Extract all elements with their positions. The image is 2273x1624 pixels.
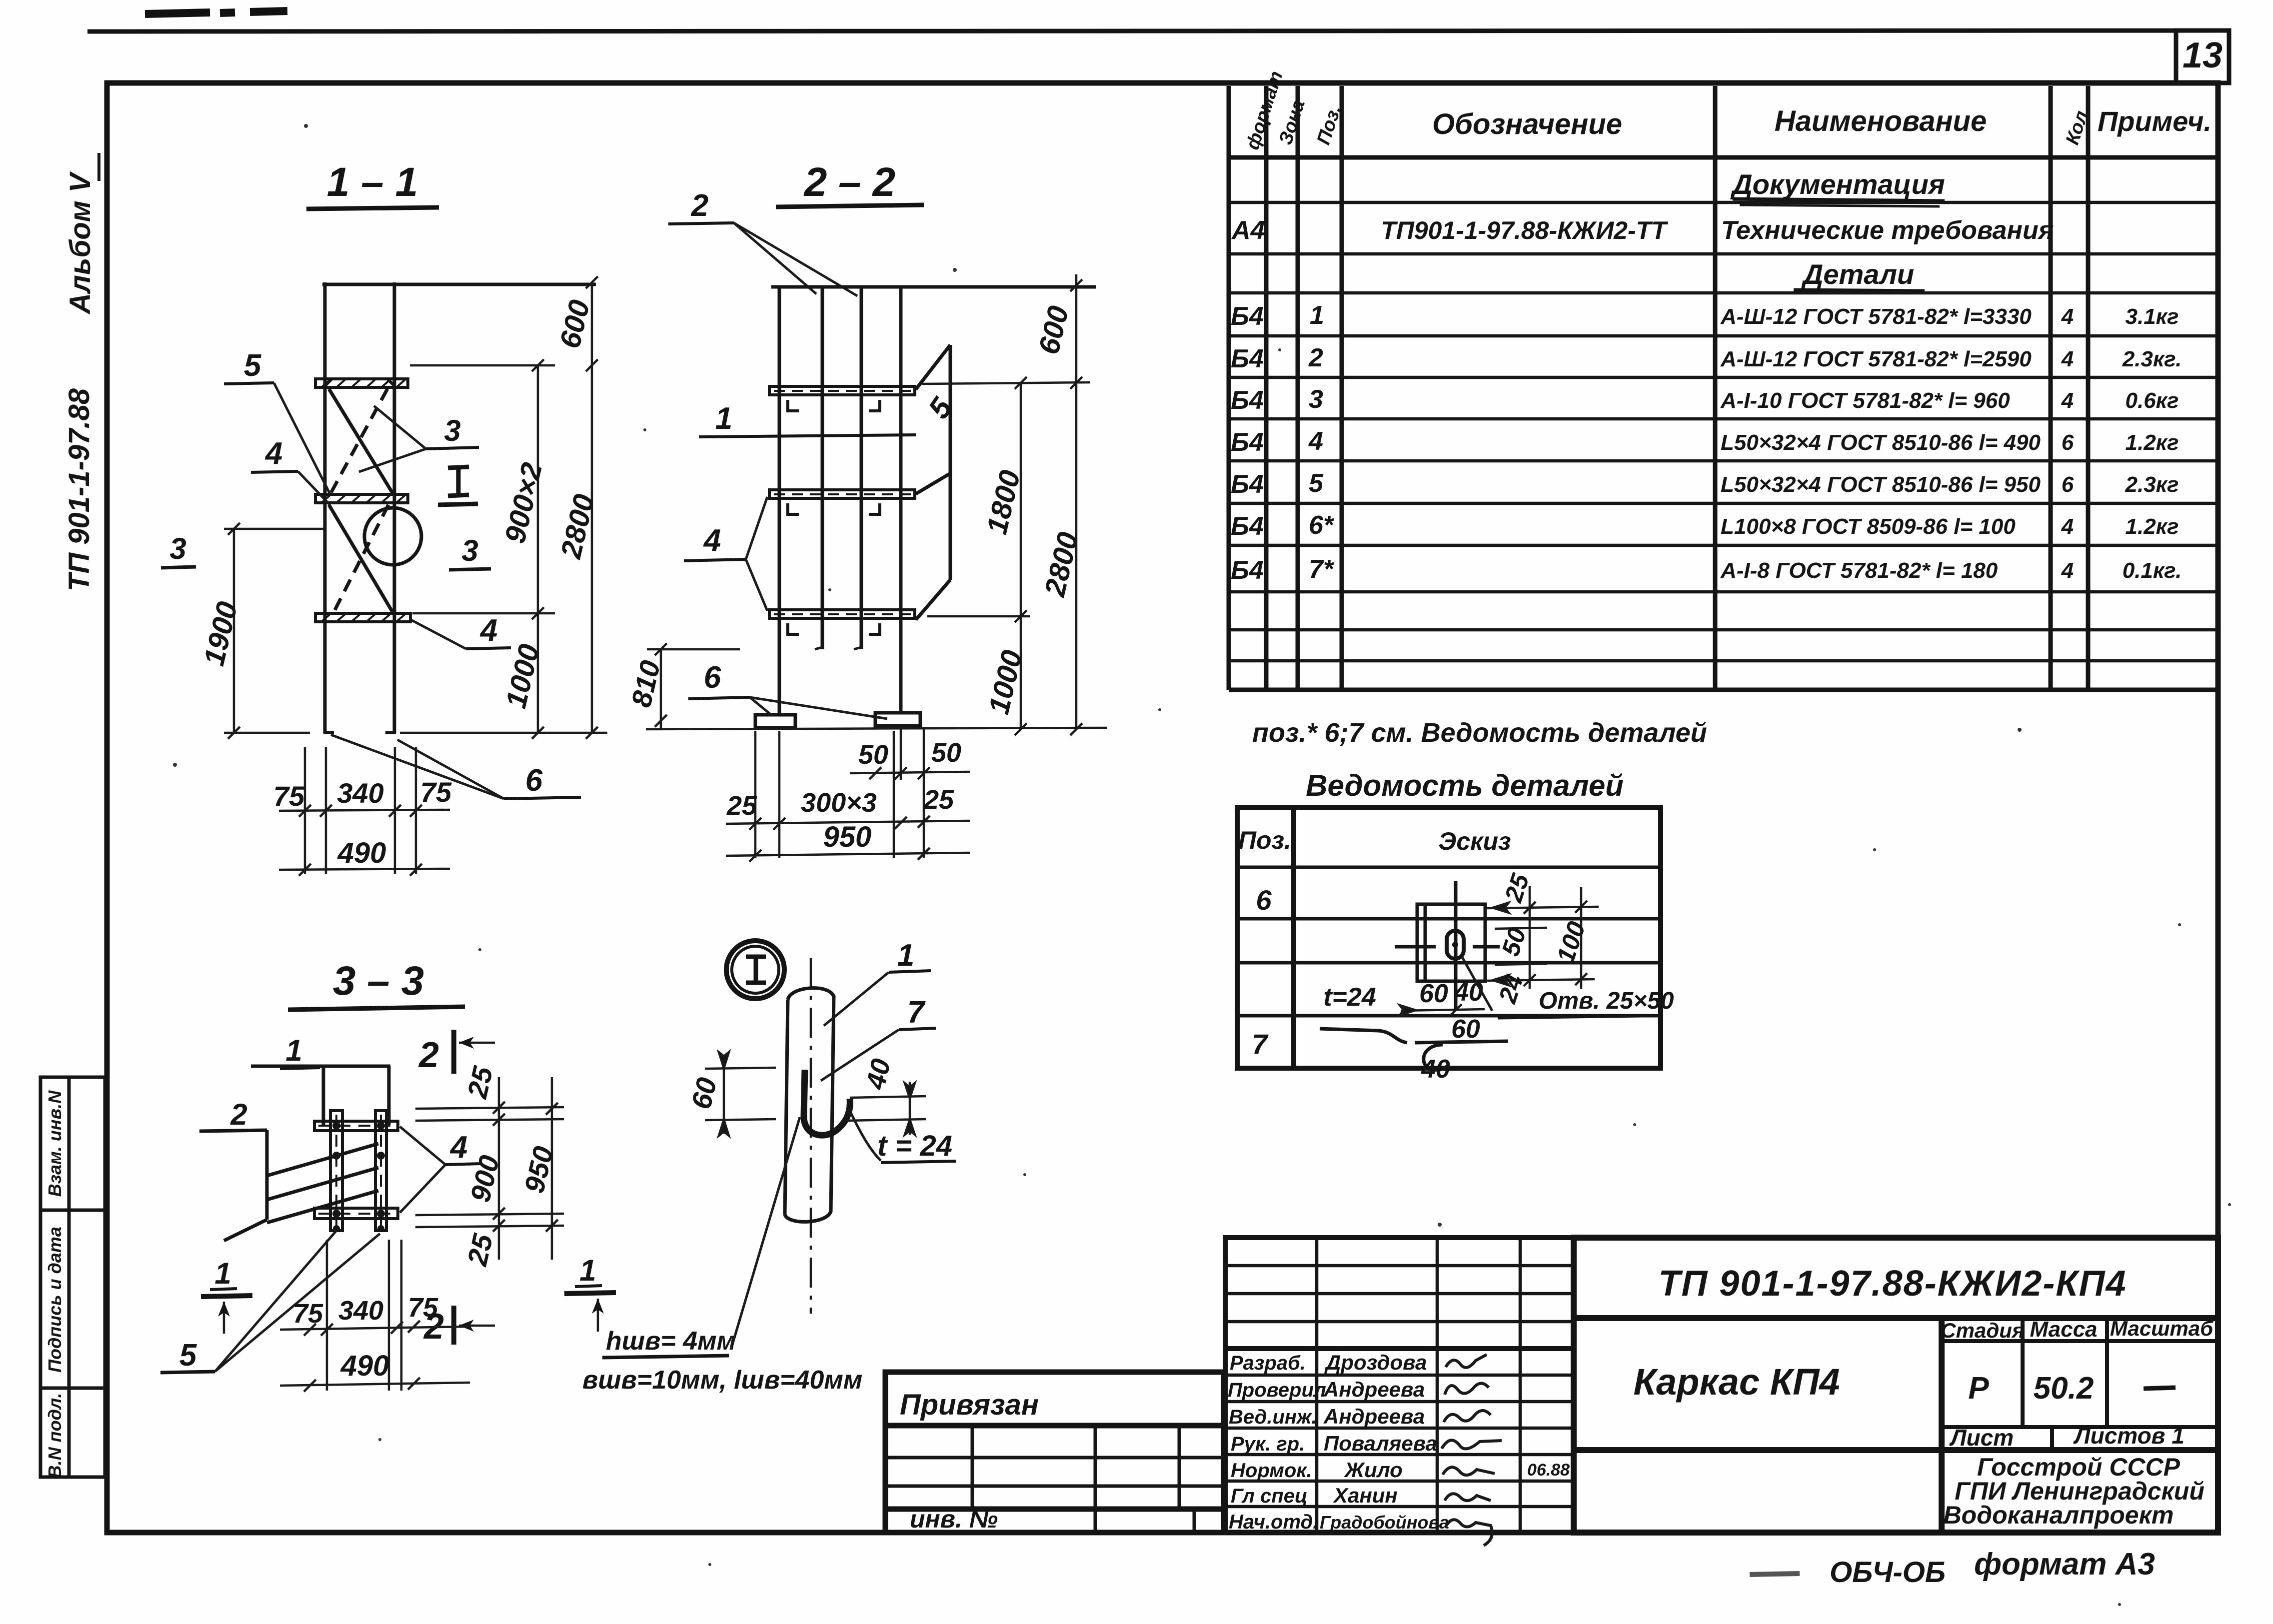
gusset flags right — [916, 345, 950, 620]
svg-text:75: 75 — [408, 1293, 438, 1323]
svg-text:4: 4 — [2061, 514, 2074, 539]
bottom extension lines — [327, 1240, 401, 1391]
shelf bar 1 — [769, 386, 915, 395]
svg-text:1: 1 — [715, 401, 732, 436]
svg-text:5: 5 — [244, 348, 262, 383]
svg-text:4: 4 — [449, 1130, 467, 1165]
dim 490 — [279, 864, 450, 876]
svg-text:2: 2 — [230, 1098, 247, 1131]
post right — [899, 287, 903, 714]
label 4 (bottom right) with leader — [411, 613, 511, 649]
svg-text:инв. №: инв. № — [910, 1505, 998, 1533]
svg-text:490: 490 — [340, 1350, 389, 1382]
main stamp block — [1574, 1238, 2218, 1533]
item rows: name / qty / weight — [1720, 304, 2182, 583]
label 1 with leader — [699, 401, 916, 437]
label 4 with leaders — [400, 1127, 481, 1213]
rivet dots — [332, 1122, 385, 1232]
svg-text:Андреева: Андреева — [1323, 1378, 1425, 1401]
signature roles — [1228, 1352, 1326, 1533]
dim line 1900 (left) — [224, 523, 325, 739]
svg-text:ТП901-1-97.88-КЖИ2-ТТ: ТП901-1-97.88-КЖИ2-ТТ — [1381, 216, 1669, 244]
svg-text:Нач.отд.: Нач.отд. — [1229, 1511, 1318, 1533]
label 5 with leaders — [160, 1231, 380, 1373]
post left — [323, 282, 327, 733]
svg-text:4: 4 — [2061, 558, 2074, 583]
svg-text:40: 40 — [1421, 1055, 1450, 1084]
hook (poz.7) — [804, 1070, 850, 1135]
svg-text:Гл спец: Гл спец — [1231, 1485, 1308, 1507]
label 1 top — [280, 1034, 320, 1069]
dim 490 bottom — [280, 1378, 470, 1392]
horizontal bar upper — [314, 1121, 398, 1131]
svg-text:300×3: 300×3 — [801, 788, 877, 818]
svg-text:1: 1 — [579, 1254, 596, 1287]
svg-text:Лист: Лист — [1949, 1425, 2014, 1451]
svg-text:3: 3 — [169, 532, 186, 565]
svg-text:6: 6 — [2062, 472, 2074, 497]
dim 60 left — [705, 1052, 776, 1136]
bottom extension lines — [755, 729, 924, 858]
vedomost grid — [1237, 808, 1661, 1068]
label 3 (right, двойная стрелка) — [359, 406, 479, 472]
svg-text:1: 1 — [214, 1257, 231, 1290]
svg-text:Документация: Документация — [1730, 168, 1945, 200]
angle cleat marks — [788, 400, 880, 634]
top chord line — [322, 283, 596, 286]
svg-text:3.1кг: 3.1кг — [2126, 304, 2179, 329]
svg-text:Андреева: Андреева — [1323, 1405, 1425, 1428]
svg-text:2.3кг.: 2.3кг. — [2122, 347, 2182, 371]
svg-text:ТП 901-1-97.88: ТП 901-1-97.88 — [63, 388, 95, 591]
diagonal brace upper solid — [329, 389, 392, 493]
diagonal dashed lower — [334, 505, 388, 612]
svg-text:4: 4 — [1308, 427, 1323, 456]
svg-text:3: 3 — [1309, 385, 1323, 414]
svg-text:Градобойнова: Градобойнова — [1320, 1512, 1449, 1533]
svg-text:4: 4 — [264, 436, 282, 471]
svg-text:ТП 901-1-97.88-КЖИ2-КП4: ТП 901-1-97.88-КЖИ2-КП4 — [1659, 1264, 2127, 1304]
dim 75/340/75 bottom — [280, 1321, 470, 1336]
svg-text:5: 5 — [1309, 469, 1324, 498]
svg-text:Ведомость деталей: Ведомость деталей — [1306, 769, 1624, 802]
label 4 with leaders — [684, 497, 767, 611]
sketch poz.7: bent bar — [1320, 1029, 1508, 1070]
node label 3 (second) — [449, 534, 491, 570]
svg-text:25: 25 — [923, 785, 954, 815]
sketch poz.6: right dims — [1486, 886, 1599, 989]
svg-text:2: 2 — [691, 188, 708, 223]
svg-text:6: 6 — [525, 763, 543, 798]
top chord line — [771, 285, 1096, 289]
horizontal bar lower — [314, 1208, 398, 1219]
svg-text:А-Ш-12 ГОСТ 5781-82* l=3330: А-Ш-12 ГОСТ 5781-82* l=3330 — [1720, 304, 2032, 329]
dim 25/300x3/25 — [726, 816, 970, 830]
base plate right — [875, 713, 920, 726]
svg-text:2: 2 — [418, 1035, 439, 1075]
left margin strip — [40, 1077, 105, 1477]
dim 2800 (right) — [646, 274, 1107, 735]
detail mark I — [438, 467, 478, 505]
vedomost headers — [1238, 826, 1511, 855]
svg-text:t = 24: t = 24 — [877, 1130, 952, 1162]
dim 40 right — [845, 1082, 926, 1135]
shelf bar 3 — [769, 610, 915, 618]
weld note — [582, 1117, 862, 1395]
base plate left — [755, 715, 795, 728]
signature names — [1320, 1351, 1449, 1533]
dim 950 — [726, 848, 970, 862]
section mark 2 bottom — [423, 1306, 495, 1347]
svg-text:50: 50 — [931, 738, 961, 768]
svg-text:Рук. гр.: Рук. гр. — [1231, 1433, 1305, 1455]
svg-text:3: 3 — [444, 414, 460, 447]
section 2-2 header — [776, 159, 924, 207]
label 4 (left) with leader — [251, 436, 330, 505]
svg-text:Подпись и дата: Подпись и дата — [44, 1227, 65, 1373]
dim 25/900/25 — [493, 1077, 505, 1260]
svg-text:Разраб.: Разраб. — [1230, 1352, 1306, 1374]
sheet number box 13 — [2176, 30, 2229, 83]
svg-text:В.N подл.: В.N подл. — [44, 1393, 65, 1479]
svg-text:Проверил: Проверил — [1228, 1379, 1326, 1401]
list row — [1949, 1423, 2185, 1451]
svg-text:Б4: Б4 — [1231, 428, 1264, 457]
svg-text:Жило: Жило — [1344, 1458, 1403, 1482]
svg-text:Поваляева: Поваляева — [1324, 1432, 1437, 1455]
smudged text fragment top-left — [145, 11, 287, 14]
svg-text:Нормок.: Нормок. — [1231, 1460, 1312, 1482]
svg-text:1: 1 — [285, 1034, 302, 1067]
svg-text:950: 950 — [823, 821, 872, 853]
shelf bar 3 — [315, 613, 410, 622]
privyazan sub grid — [885, 1426, 1224, 1533]
poz numbers — [1252, 884, 1272, 1060]
svg-text:4: 4 — [703, 523, 721, 558]
svg-text:4: 4 — [2061, 388, 2074, 413]
svg-text:Эскиз: Эскиз — [1438, 827, 1511, 855]
svg-text:40: 40 — [1454, 978, 1483, 1007]
svg-text:2.3кг: 2.3кг — [2125, 472, 2179, 497]
vertical channel 2 — [375, 1111, 386, 1231]
right reference lines — [415, 1107, 564, 1227]
svg-text:340: 340 — [338, 1296, 383, 1326]
item rows: формат + поз columns — [1231, 301, 1335, 585]
svg-text:А-I-10 ГОСТ 5781-82* l= 960: А-I-10 ГОСТ 5781-82* l= 960 — [1720, 388, 2010, 413]
section mark 1 right — [564, 1254, 616, 1332]
svg-text:t=24: t=24 — [1323, 983, 1376, 1012]
label 7 with leader — [821, 995, 936, 1081]
svg-text:0.6кг: 0.6кг — [2126, 388, 2179, 413]
svg-text:7: 7 — [907, 995, 926, 1030]
label 5 with leader — [224, 348, 330, 494]
svg-text:0.1кг.: 0.1кг. — [2123, 558, 2182, 583]
spec header labels — [1242, 68, 2212, 152]
shelf bar 2 — [769, 490, 915, 498]
top bar line — [251, 1065, 390, 1068]
svg-text:L50×32×4 ГОСТ 8510-86 l= 950: L50×32×4 ГОСТ 8510-86 l= 950 — [1721, 472, 2041, 497]
svg-text:2 – 2: 2 – 2 — [803, 159, 895, 205]
svg-text:1: 1 — [1310, 301, 1324, 330]
detail circle — [364, 508, 421, 565]
svg-text:Б4: Б4 — [1231, 302, 1264, 331]
dim line 600 / 2800 — [400, 276, 607, 739]
tube body — [785, 988, 834, 1222]
vertical channel 1 — [330, 1111, 342, 1231]
post left — [778, 287, 781, 716]
spec table grid — [1229, 86, 2218, 690]
bottom extension lines — [305, 747, 416, 874]
svg-text:Детали: Детали — [1801, 258, 1914, 290]
svg-text:Наименование: Наименование — [1775, 105, 1987, 137]
svg-text:50: 50 — [858, 740, 888, 770]
label 6 with leaders — [331, 735, 581, 799]
sketch poz.6: slot hole — [1447, 931, 1464, 959]
svg-text:Обозначение: Обозначение — [1432, 108, 1622, 140]
post right — [393, 282, 396, 733]
svg-text:поз.* 6;7 см. Ведомость д: поз.* 6;7 см. Ведомость деталей — [1252, 718, 1707, 748]
svg-text:75: 75 — [420, 776, 452, 808]
section mark 1 left — [201, 1257, 252, 1334]
vertical document title left edge — [63, 153, 99, 591]
svg-text:75: 75 — [273, 780, 305, 812]
svg-text:Вед.инж.: Вед.инж. — [1229, 1406, 1317, 1428]
left margin rotated labels — [44, 1090, 65, 1479]
svg-text:3: 3 — [461, 534, 478, 567]
svg-text:А-Ш-12 ГОСТ 5781-82* l=2590: А-Ш-12 ГОСТ 5781-82* l=2590 — [1720, 347, 2032, 371]
dim 75/340/75 — [279, 805, 450, 817]
svg-text:4: 4 — [2061, 304, 2074, 329]
rebar 2 — [860, 287, 863, 649]
svg-text:25: 25 — [726, 791, 757, 821]
diagonal braces (poz.2) — [267, 1144, 378, 1223]
svg-text:Каркас КП4: Каркас КП4 — [1634, 1361, 1840, 1403]
post feet marks — [325, 379, 394, 733]
stage/mass/scale headers — [1941, 1317, 2214, 1342]
svg-text:60: 60 — [1419, 979, 1448, 1008]
svg-text:340: 340 — [337, 777, 383, 809]
svg-text:Листов 1: Листов 1 — [2073, 1423, 2185, 1449]
svg-text:Дроздова: Дроздова — [1324, 1351, 1427, 1374]
svg-text:Б4: Б4 — [1231, 470, 1264, 499]
shelf bar 1 — [315, 379, 408, 387]
svg-text:Отв. 25×50: Отв. 25×50 — [1539, 988, 1674, 1014]
svg-text:Стадия: Стадия — [1941, 1319, 2024, 1342]
bottom annotations — [1750, 1547, 2155, 1589]
rebar feet — [815, 647, 824, 649]
svg-text:Альбом V: Альбом V — [64, 171, 96, 315]
svg-text:4: 4 — [2061, 347, 2074, 371]
diagonal brace lower solid — [329, 505, 392, 612]
detail I balloon — [726, 941, 784, 999]
svg-text:Поз.: Поз. — [1238, 826, 1291, 854]
svg-text:Масса: Масса — [2030, 1317, 2097, 1342]
svg-text:ОБЧ-ОБ: ОБЧ-ОБ — [1830, 1556, 1946, 1589]
row: Детали — [1794, 258, 1925, 291]
stage/mass/scale values — [1968, 1371, 2094, 1406]
svg-text:hшв= 4мм: hшв= 4мм — [606, 1327, 736, 1356]
dim line 900x2 / 1000 — [410, 359, 555, 739]
svg-text:Б4: Б4 — [1231, 556, 1264, 585]
svg-text:06.88: 06.88 — [1527, 1461, 1570, 1480]
svg-text:50.2: 50.2 — [2034, 1371, 2094, 1406]
svg-text:А-I-8 ГОСТ 5781-82* l= 180: А-I-8 ГОСТ 5781-82* l= 180 — [1720, 558, 1998, 583]
svg-text:4: 4 — [479, 613, 497, 648]
diagonal dashed upper — [331, 389, 387, 493]
svg-text:490: 490 — [337, 837, 386, 869]
hanger verticals — [322, 1066, 325, 1125]
label 6 leader bottom — [0, 0, 0, 0]
svg-text:1 – 1: 1 – 1 — [327, 159, 418, 205]
sketch poz.6: plate — [1395, 881, 1500, 1011]
svg-text:6: 6 — [1256, 884, 1272, 916]
svg-text:3 – 3: 3 – 3 — [333, 958, 424, 1004]
dim 810 (left) — [647, 643, 740, 729]
svg-text:Технические требования: Технические требования — [1721, 216, 2054, 245]
dim 600/1800/1000 — [922, 377, 1090, 735]
dim 50/50 — [850, 767, 970, 779]
svg-text:Масштаб: Масштаб — [2110, 1317, 2214, 1340]
row: technical requirements — [1231, 216, 2054, 245]
svg-text:7*: 7* — [1309, 555, 1335, 584]
section mark 2 top — [418, 1030, 495, 1075]
dim 950 right — [546, 1077, 558, 1260]
centerline dash-dot — [810, 958, 812, 1314]
svg-text:L100×8 ГОСТ 8509-86 l= 100: L100×8 ГОСТ 8509-86 l= 100 — [1721, 514, 2016, 539]
section 1-1 header — [306, 159, 439, 209]
svg-text:6: 6 — [2062, 430, 2074, 455]
rebar 1 — [821, 287, 824, 649]
label 6 with leaders — [688, 660, 887, 719]
svg-text:Водоканалпроект: Водоканалпроект — [1944, 1501, 2174, 1529]
svg-text:6: 6 — [704, 660, 721, 695]
sketch poz.6: bottom dims — [1400, 1004, 1485, 1016]
svg-text:6*: 6* — [1309, 511, 1335, 540]
svg-text:2: 2 — [1308, 343, 1323, 372]
svg-text:Взам. инв.N: Взам. инв.N — [44, 1090, 65, 1197]
label 1 with leader — [824, 938, 931, 1026]
label 2 with leaders — [668, 188, 857, 296]
organization — [1944, 1453, 2205, 1529]
svg-text:75: 75 — [293, 1299, 323, 1329]
signature table — [1225, 1238, 1574, 1533]
section 3-3 header — [288, 958, 465, 1010]
svg-text:А4: А4 — [1231, 216, 1265, 245]
svg-text:5: 5 — [179, 1338, 197, 1373]
label 2 with step leader — [199, 1098, 267, 1220]
svg-text:1.2кг: 1.2кг — [2126, 514, 2179, 539]
svg-text:1: 1 — [897, 938, 914, 973]
note t=24 — [849, 1109, 956, 1163]
row: Документация — [1730, 168, 1945, 206]
svg-text:Р: Р — [1968, 1371, 1989, 1406]
svg-text:Привязан: Привязан — [900, 1389, 1039, 1421]
svg-text:формат А3: формат А3 — [1974, 1547, 2155, 1582]
svg-text:13: 13 — [2183, 35, 2223, 75]
svg-text:Б4: Б4 — [1231, 386, 1264, 415]
privyazan box — [885, 1372, 1224, 1533]
top rule line — [87, 30, 2230, 31]
svg-text:Примеч.: Примеч. — [2098, 105, 2212, 137]
svg-text:L50×32×4 ГОСТ 8510-86 l= 490: L50×32×4 ГОСТ 8510-86 l= 490 — [1721, 430, 2041, 455]
node label 3 (left) — [161, 532, 196, 568]
svg-text:Ханин: Ханин — [1333, 1484, 1398, 1507]
svg-text:1.2кг: 1.2кг — [2126, 430, 2179, 455]
shelf bar 2 — [315, 494, 408, 503]
svg-text:60: 60 — [1451, 1015, 1480, 1044]
svg-text:вшв=10мм, lшв=40мм: вшв=10мм, lшв=40мм — [582, 1366, 862, 1395]
handwritten signatures — [1442, 1355, 1502, 1546]
svg-text:Б4: Б4 — [1231, 344, 1264, 373]
svg-text:Б4: Б4 — [1231, 512, 1264, 541]
svg-text:7: 7 — [1252, 1028, 1269, 1060]
